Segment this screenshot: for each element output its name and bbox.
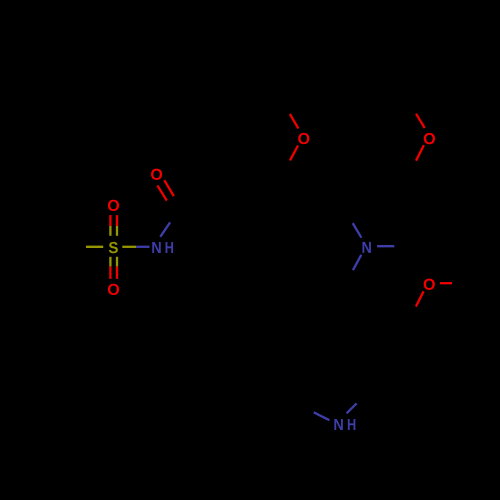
S=O bottom bond line1 olive half xyxy=(109,257,111,267)
oxygen O1 carbonyl letter xyxy=(151,169,162,180)
lower methoxy O6-ring bond xyxy=(416,291,424,306)
S=O bottom bond line2 olive half xyxy=(116,257,118,267)
oxygen O2 sulfonyl-top letter xyxy=(108,200,119,211)
oxygen O4 central methoxy letter xyxy=(298,133,309,144)
central methoxy O4-CH3 bond xyxy=(290,114,298,128)
central methoxy O4-ring bond xyxy=(290,146,298,161)
right methoxy O5-CH3 bond xyxy=(416,114,425,128)
S=O top bond line2 olive half xyxy=(116,226,118,236)
nitrogen N2 amine letter xyxy=(362,242,370,253)
nitrogen N1 amide letter N xyxy=(152,242,160,253)
S=O bottom bond line2 red half xyxy=(116,266,118,279)
S=O top bond line1 olive half xyxy=(109,226,111,236)
amine N2 stub right xyxy=(377,245,394,247)
lower methoxy O6-CH3 bond xyxy=(440,282,452,284)
carbonyl C=O double bond line 1 xyxy=(164,180,174,196)
bond S-N olive half xyxy=(122,246,136,248)
carbonyl C=O double bond line 2 xyxy=(157,186,166,201)
bond CH3-S xyxy=(86,246,103,248)
amide letter H xyxy=(166,242,174,253)
indole N3 stub up-right xyxy=(347,403,357,413)
amine N2 stub down-left xyxy=(353,255,361,270)
S=O top bond line2 red half xyxy=(116,215,118,226)
sulfur S1 letter xyxy=(109,242,118,253)
bond N-C(=O) xyxy=(160,222,170,236)
right methoxy O5-ring bond xyxy=(416,145,424,161)
amine N2 stub up-left xyxy=(353,223,362,238)
oxygen O6 lower methoxy letter xyxy=(424,279,435,290)
bond S-N blue half xyxy=(136,246,149,248)
S=O top bond line1 red half xyxy=(109,215,111,226)
oxygen O3 sulfonyl-bottom letter xyxy=(108,284,119,295)
indole N3 stub left xyxy=(314,412,330,420)
nitrogen N3 indole letter N xyxy=(334,419,342,430)
S=O bottom bond line1 red half xyxy=(109,266,111,279)
indole letter H xyxy=(348,419,356,430)
oxygen O5 right methoxy letter xyxy=(424,133,435,144)
